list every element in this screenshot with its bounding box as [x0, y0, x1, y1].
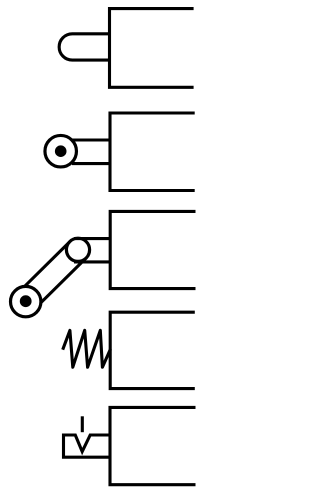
pivot stem upper line [74, 237, 110, 240]
valve body 2 [110, 113, 195, 191]
lever roller wheel circle [11, 286, 41, 316]
lever arm upper line [18, 242, 70, 294]
detent plate outline with V notch [64, 435, 111, 457]
roller axle dot [55, 145, 67, 157]
lever roller axle dot [20, 295, 32, 307]
valve body 5 [110, 407, 196, 484]
detent pin [81, 416, 84, 432]
valve body 4 [110, 312, 195, 388]
push-button actuator (plunger pill) [59, 34, 110, 60]
roller stem upper line [72, 138, 110, 141]
return spring zigzag [63, 330, 111, 367]
valve body 1 [110, 9, 194, 88]
lever arm lower line [34, 258, 86, 310]
lever pivot circle [66, 238, 89, 261]
valve body 3 [110, 211, 195, 288]
roller stem lower line [72, 162, 110, 165]
pivot stem lower line [74, 260, 110, 263]
roller wheel circle [45, 135, 76, 167]
